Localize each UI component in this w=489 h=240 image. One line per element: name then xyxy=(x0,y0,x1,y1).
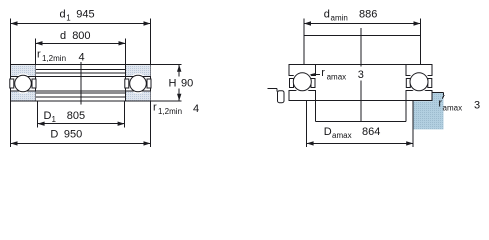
housing block blue fill lower part xyxy=(414,101,444,129)
svg-text:r: r xyxy=(37,49,41,61)
svg-text:r: r xyxy=(321,67,325,79)
dimension d_amin extension left / shoulder side xyxy=(303,19,305,65)
svg-text:d: d xyxy=(324,9,330,21)
cage segment right section right xyxy=(428,79,432,88)
housing pedestal bottom xyxy=(316,121,406,123)
cage segment right section outer xyxy=(147,79,151,88)
arrowhead D1 left xyxy=(38,122,45,126)
dimension D_amax extension left xyxy=(306,101,308,147)
svg-text:H: H xyxy=(169,78,177,90)
svg-text:886: 886 xyxy=(359,9,377,21)
housing block blue fill upper part xyxy=(433,93,444,102)
axis center line xyxy=(360,28,362,122)
wire: left view OD extension line left xyxy=(10,19,12,148)
svg-text:d: d xyxy=(60,30,66,42)
shaft washer left section xyxy=(289,65,316,76)
bore silhouette line 2 xyxy=(36,72,126,74)
dimension H 90 line lower segment xyxy=(178,89,180,101)
svg-text:d: d xyxy=(60,9,66,21)
dimension d_amin extension right / shoulder side xyxy=(420,19,422,65)
shaft washer right section xyxy=(406,65,432,76)
cage segment right section left xyxy=(406,79,410,88)
housing washer right edge above blue xyxy=(431,92,433,100)
bore silhouette line 1 xyxy=(36,68,126,70)
cage segment left section left xyxy=(290,79,294,88)
ball right section mounted view xyxy=(410,73,428,91)
arrowhead d1 left xyxy=(11,21,18,25)
housing block corner downturn xyxy=(443,92,445,95)
cage segment left section outer xyxy=(32,79,36,88)
dimension H 90 line upper segment xyxy=(178,65,180,76)
raceway groove cut left xyxy=(13,74,33,94)
leader r_amax bottom tick xyxy=(442,95,444,98)
dimension d 800 extension left xyxy=(35,39,37,101)
H extension line bottom xyxy=(151,100,182,102)
raceway groove cut right section xyxy=(408,71,429,92)
arrowhead D left xyxy=(11,141,18,145)
housing block left outline / D_amax extension right xyxy=(412,101,414,147)
dimension D_amax line xyxy=(307,142,413,144)
svg-text:3: 3 xyxy=(358,69,364,81)
cage segment right section inner xyxy=(125,79,129,88)
cage segment left section inner xyxy=(10,79,14,88)
svg-text:r: r xyxy=(153,102,157,114)
bore silhouette line 3 xyxy=(36,92,126,94)
dimension d_amin line xyxy=(305,23,421,25)
svg-text:950: 950 xyxy=(64,129,82,141)
svg-text:864: 864 xyxy=(362,126,380,138)
svg-text:D: D xyxy=(324,126,332,138)
svg-text:800: 800 xyxy=(72,30,90,42)
housing washer left section xyxy=(289,90,316,100)
dimension D1 805 line xyxy=(38,123,124,125)
arrowhead d1 right xyxy=(144,21,151,25)
bearing bottom face line right view xyxy=(289,100,432,102)
shaft surface line left xyxy=(267,87,277,89)
cage segment left section right xyxy=(311,79,315,88)
dimension d1 945 line xyxy=(11,23,150,25)
svg-text:amax: amax xyxy=(443,104,463,113)
bore silhouette line 4 xyxy=(36,96,126,98)
svg-text:1,2min: 1,2min xyxy=(42,54,66,63)
top washer lower edge line xyxy=(11,75,151,77)
washer bottom-right hatched xyxy=(126,91,151,101)
bottom washer upper edge line xyxy=(11,90,151,92)
ball right section xyxy=(130,75,147,92)
svg-text:3: 3 xyxy=(474,100,480,112)
raceway groove cut right xyxy=(128,74,148,94)
svg-text:1,2min: 1,2min xyxy=(158,107,182,116)
housing washer right section xyxy=(406,90,432,100)
washer top-left hatched xyxy=(11,65,36,76)
leader for r chamfer value 4 xyxy=(80,62,82,105)
arrowhead H top xyxy=(177,65,181,72)
label r_amax 3 mid xyxy=(356,67,366,81)
dimension d 800 extension right xyxy=(125,39,127,101)
svg-text:4: 4 xyxy=(79,52,85,64)
arrowhead d_amin left xyxy=(304,21,311,25)
dimension D1 805 extension left xyxy=(37,101,39,128)
svg-text:amin: amin xyxy=(331,14,348,23)
svg-text:90: 90 xyxy=(181,78,193,90)
wire: left view OD extension line right xyxy=(150,19,152,148)
arrowhead D_amax right xyxy=(406,141,413,145)
housing pedestal left edge xyxy=(315,101,317,122)
svg-text:D: D xyxy=(50,129,58,141)
shaft end face xyxy=(278,91,285,103)
svg-text:4: 4 xyxy=(193,103,199,115)
svg-text:D: D xyxy=(44,110,52,122)
raceway groove cut left section xyxy=(292,71,313,92)
shaft shoulder block top xyxy=(304,35,421,37)
leader r_amax mid xyxy=(313,74,321,76)
bearing top face line xyxy=(11,64,151,66)
arrowhead d right xyxy=(119,41,126,45)
svg-text:805: 805 xyxy=(67,110,85,122)
dimension D 950 line xyxy=(11,142,150,144)
housing block top outline xyxy=(432,91,444,93)
arrowhead D1 right xyxy=(118,122,125,126)
bearing top face line right view xyxy=(289,64,432,66)
arrowhead d_amin right xyxy=(414,21,421,25)
bearing bottom face line xyxy=(11,100,151,102)
svg-text:amax: amax xyxy=(332,131,352,140)
arrowhead D_amax left xyxy=(307,141,314,145)
ball left section xyxy=(15,75,32,92)
svg-text:1: 1 xyxy=(52,115,57,124)
arrowhead D right xyxy=(144,141,151,145)
svg-text:945: 945 xyxy=(76,9,94,21)
dimension D1 805 extension right xyxy=(124,101,126,128)
svg-text:1: 1 xyxy=(66,14,71,23)
shaft step line left xyxy=(276,88,278,91)
arrowhead r_amax mid leader xyxy=(310,73,316,76)
arrowhead H bottom xyxy=(177,94,181,101)
dimension d 800 line xyxy=(36,42,125,44)
washer top-right hatched xyxy=(126,65,151,76)
washer bottom-left hatched xyxy=(11,91,36,101)
arrowhead d left xyxy=(36,41,43,45)
H extension line top xyxy=(151,64,182,66)
ball left section mounted view xyxy=(293,73,311,91)
housing pedestal right edge xyxy=(405,101,407,122)
svg-text:amax: amax xyxy=(327,73,347,82)
